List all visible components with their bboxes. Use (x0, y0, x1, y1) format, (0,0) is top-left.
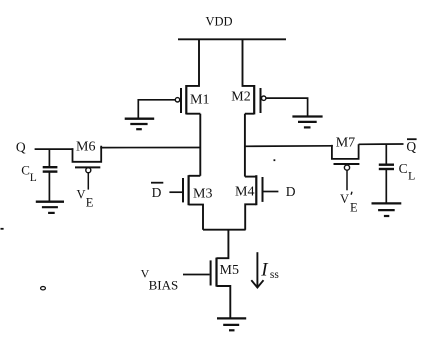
ground (M2 gate) (292, 117, 322, 128)
svg-text:M2: M2 (231, 89, 250, 104)
wire M5 gate (183, 274, 210, 276)
svg-text:V: V (77, 187, 86, 201)
svg-text:VDD: VDD (206, 15, 233, 29)
svg-text:M5: M5 (220, 263, 239, 278)
svg-text:E: E (86, 196, 94, 210)
current arrow Iss (251, 252, 279, 287)
svg-text:L: L (408, 168, 415, 182)
node VE' label (right) (340, 192, 358, 215)
wire M2 gate to ground (266, 98, 308, 116)
transistor M4 (235, 175, 263, 230)
wire common source to M5 drain (217, 230, 229, 259)
svg-text:M6: M6 (76, 139, 95, 154)
svg-text:L: L (30, 172, 37, 184)
node Qbar label (406, 139, 416, 154)
wire rail to M1 source (186, 39, 199, 86)
svg-text:BIAS: BIAS (149, 277, 179, 292)
capacitor CL (right) (379, 144, 416, 203)
svg-text:D: D (286, 184, 296, 199)
svg-text:M3: M3 (193, 186, 212, 201)
node VBIAS label (141, 266, 179, 292)
svg-text:D: D (152, 185, 162, 200)
transistor M3 (183, 175, 212, 230)
wire M4 gate (264, 191, 279, 193)
svg-text:C: C (399, 161, 408, 176)
node VE label (left) (77, 187, 94, 209)
ground (M1 gate) (125, 119, 155, 130)
wire common source bar (203, 229, 246, 231)
transistor M5 (211, 258, 239, 318)
ground (left CL) (36, 202, 64, 213)
wire right branch to M7 (245, 145, 333, 148)
svg-text:C: C (21, 163, 30, 178)
wire M3 gate (169, 191, 182, 193)
wire M1 gate to ground (138, 100, 175, 119)
capacitor CL (left) (21, 149, 57, 201)
svg-text:M4: M4 (235, 185, 254, 200)
wire right branch M2 drain to M4 drain (244, 114, 246, 177)
transistor M7 (332, 136, 360, 191)
svg-text:M7: M7 (336, 136, 355, 151)
wire VDD rail (178, 38, 286, 40)
ground (M5 source) (217, 318, 246, 330)
transistor M2 (231, 85, 266, 114)
transistor M1 (175, 85, 209, 114)
stray mark dot (274, 159, 276, 161)
svg-text:E: E (350, 201, 358, 215)
svg-text:V: V (340, 192, 349, 206)
node Dbar label (151, 183, 163, 200)
wire left branch M1 drain to M3 drain (199, 114, 201, 176)
transistor M6 (73, 139, 102, 189)
svg-text:Q: Q (406, 139, 416, 154)
svg-text:Q: Q (16, 139, 26, 154)
svg-text:ss: ss (270, 269, 279, 281)
ground (right CL) (372, 203, 402, 216)
svg-text:M1: M1 (190, 93, 209, 108)
stray mark dash (left edge) (1, 228, 4, 230)
wire M7 to Qbar (359, 143, 404, 145)
stray mark small ellipse (41, 287, 46, 290)
wire M6 to left branch (Q node) (100, 147, 200, 149)
wire Q to M6 (35, 148, 74, 150)
wire rail to M2 source (243, 39, 255, 86)
